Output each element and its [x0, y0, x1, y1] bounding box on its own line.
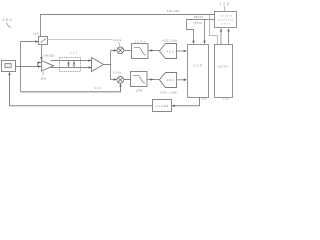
junction node	[110, 64, 112, 66]
svg-text:116a: 116a	[113, 38, 122, 42]
attenuator box 104	[39, 37, 48, 45]
wire mixer outputs	[124, 51, 132, 80]
wire amp output split	[104, 51, 111, 80]
mixer 116b	[117, 76, 124, 83]
svg-text:LNA 110: LNA 110	[43, 53, 54, 57]
op-amp 114	[92, 58, 104, 72]
leader 116a	[119, 42, 120, 46]
wire host to controller arrows	[220, 29, 222, 45]
wire arrow into box 104	[21, 41, 39, 43]
ADC 126a	[159, 44, 176, 59]
svg-text:106: 106	[41, 76, 47, 80]
svg-text:DIG I/O: DIG I/O	[194, 15, 204, 19]
wire diff rails	[51, 61, 89, 68]
mixer 116a	[117, 47, 124, 54]
svg-text:ADC 126b: ADC 126b	[160, 91, 177, 95]
svg-text:132: 132	[223, 97, 229, 101]
label 106	[42, 71, 44, 75]
svg-text:100: 100	[2, 18, 12, 22]
filter network 112 dashed box	[60, 58, 81, 72]
svg-text:124a: 124a	[134, 40, 145, 44]
wire light control line	[48, 39, 113, 41]
wire control bus B	[204, 20, 206, 44]
wire filter to ADC	[148, 50, 159, 52]
svg-text:ADC 126a: ADC 126a	[162, 38, 177, 42]
svg-text:HOST: HOST	[218, 64, 229, 68]
leader hook for 100	[7, 22, 11, 27]
filter 124b	[131, 72, 148, 87]
input source box 102	[2, 61, 16, 72]
svg-text:unit: unit	[221, 22, 230, 26]
svg-text:128: 128	[220, 2, 230, 6]
wire top control line	[41, 15, 215, 37]
wire bottom control to lower mixer	[21, 84, 121, 92]
label 100	[2, 18, 12, 22]
varactor element 2	[73, 61, 76, 68]
ADC 126b	[159, 73, 176, 88]
digital block 130	[188, 45, 209, 98]
LO generator box 134	[153, 100, 172, 112]
wire RF input	[16, 63, 38, 67]
svg-text:ctrl bus: ctrl bus	[193, 21, 202, 25]
svg-text:112: 112	[70, 50, 77, 54]
op-amp LNA 110	[42, 61, 54, 71]
svg-text:DSP: DSP	[193, 63, 202, 67]
svg-text:130: 130	[201, 97, 207, 101]
wire ADC outputs	[177, 50, 187, 52]
svg-text:104: 104	[33, 32, 39, 36]
host block 132	[215, 45, 233, 98]
svg-text:118 120: 118 120	[167, 9, 180, 13]
svg-text:114: 114	[94, 86, 101, 90]
svg-text:ADC: ADC	[166, 49, 175, 53]
svg-text:116b: 116b	[113, 71, 121, 75]
wire bottom feedback to source	[10, 72, 153, 106]
filter 124a	[132, 44, 149, 59]
svg-text:124b: 124b	[135, 88, 142, 92]
svg-text:ADC: ADC	[166, 78, 175, 82]
leader 128	[224, 6, 225, 11]
wire link top to host	[210, 15, 218, 45]
varactor element 1	[67, 61, 70, 68]
wire box 104 down to LNA	[41, 45, 43, 61]
controller box 128	[215, 12, 237, 28]
wire control bus A	[187, 20, 215, 44]
wire vertical control	[20, 42, 22, 92]
wire DSP to LO	[172, 98, 200, 106]
svg-text:LO GEN: LO GEN	[155, 104, 168, 108]
